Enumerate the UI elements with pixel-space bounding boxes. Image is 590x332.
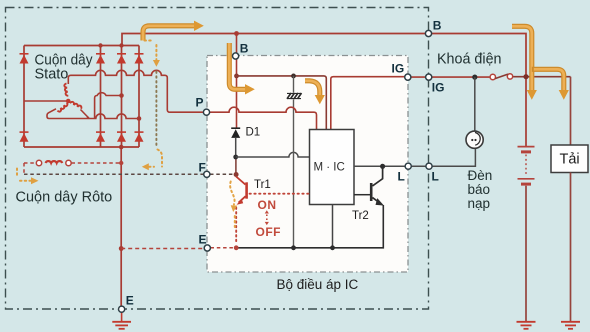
wire: IG pin of M-IC [331, 77, 405, 130]
label Tr2 [352, 210, 369, 222]
label node B inner [240, 42, 249, 56]
wire: rotor dashed left [24, 162, 36, 164]
diode D-top-neutral [20, 54, 29, 64]
bridge column 3 [138, 46, 140, 148]
svg-text:Bộ điều áp IC: Bộ điều áp IC [277, 277, 359, 292]
load box Tai [551, 145, 588, 173]
wire: load to ground [570, 173, 572, 322]
svg-text:L: L [432, 170, 439, 184]
junction resistor top [291, 74, 296, 79]
svg-text:báo: báo [468, 182, 491, 197]
node E inner [204, 245, 210, 251]
svg-text:ON: ON [258, 198, 277, 212]
wire: lamp feed [474, 77, 476, 131]
field current dotted from B bus [145, 41, 160, 67]
junction E rail Tr1 [234, 245, 239, 250]
transistor Tr1 [236, 177, 247, 205]
svg-text:B: B [433, 19, 442, 33]
rotor slip ring right [66, 160, 71, 165]
label OFF [256, 225, 282, 239]
ON OFF toggle arrow [265, 210, 269, 225]
svg-text:Tr1: Tr1 [254, 179, 271, 191]
wire: P line into regulator [210, 107, 317, 129]
junction bottom rail ground [119, 145, 124, 150]
label node F [199, 161, 206, 175]
label node L outer [432, 170, 439, 184]
stator coil phase U [64, 84, 68, 96]
junction B column IG line [234, 74, 239, 79]
label node IG outer [432, 81, 445, 95]
junction F [234, 172, 239, 177]
field current dotted mid segment [155, 72, 157, 147]
wire: E dashed link to regulator [121, 248, 204, 250]
label Den bao nap [468, 168, 493, 211]
junction phase W col2 [119, 93, 124, 98]
node P [203, 109, 209, 115]
field current dotted rotor exit [17, 169, 39, 185]
wire: E dashed to Tr1 [211, 247, 237, 249]
diode D1 [231, 128, 240, 138]
ignition switch line [408, 76, 571, 78]
svg-text:Đèn: Đèn [468, 168, 493, 183]
svg-text:Stato: Stato [35, 67, 69, 83]
label node P [196, 96, 204, 110]
wire: B bus from bridge to battery [122, 34, 526, 147]
rotor field coil [46, 161, 63, 163]
junction L Tr2 [380, 164, 385, 169]
diode D-bot-1 [96, 132, 105, 142]
ground wire from bridge to E [120, 147, 122, 306]
junction B bus [234, 31, 239, 36]
label Cuon day Stato [35, 53, 94, 83]
svg-text:L: L [398, 170, 405, 184]
rectifier bridge top rail [24, 45, 139, 47]
junction bridge rail col1 [98, 43, 102, 47]
wire: Tr2 base from M-IC [354, 194, 370, 196]
diode D-top-1 [96, 54, 105, 64]
junction bridge rail col2 [119, 43, 123, 47]
bridge column 2 [121, 46, 123, 148]
wire: Tr1 emitter dotted to E rail [235, 208, 237, 245]
wire: phase U to P terminal [68, 70, 204, 112]
current arrow into B terminal [229, 43, 255, 95]
wire: L output line [354, 148, 475, 166]
svg-text:P: P [196, 96, 204, 110]
wire: rotor left drop [23, 163, 25, 174]
node E outer [119, 306, 125, 312]
wire: F dashed line [24, 173, 204, 175]
battery [518, 147, 535, 185]
switch contact left [490, 74, 495, 79]
node F [204, 171, 210, 177]
junction battery tap [523, 74, 528, 79]
stator neutral wire [24, 100, 66, 102]
svg-text:OFF: OFF [256, 225, 282, 239]
alternator dash-dot frame [6, 8, 429, 310]
stator star point [66, 99, 71, 104]
diode D-top-3 [135, 54, 144, 64]
node B outer [425, 30, 431, 36]
svg-text:Tải: Tải [560, 152, 580, 168]
wire: load feed [570, 77, 572, 145]
wire: F dashed inside regulator [210, 173, 236, 175]
ground symbol load [561, 322, 580, 329]
svg-text:M · IC: M · IC [314, 162, 345, 174]
ground symbol E [112, 312, 131, 329]
label node E inner [199, 233, 207, 247]
junction phase V col3 [137, 116, 142, 121]
wire: phase V to bridge column 3 [47, 109, 139, 119]
rectifier bridge bottom rail [24, 146, 139, 148]
svg-text:D1: D1 [246, 127, 261, 139]
junction E rail M-IC [330, 245, 335, 250]
wire: resistor column [293, 76, 295, 248]
wire: phase W tail [81, 110, 89, 119]
switch blade [495, 74, 508, 79]
node L inner [405, 163, 411, 169]
wire: battery to ground [525, 186, 527, 322]
svg-text:Tr2: Tr2 [352, 210, 369, 222]
IC regulator box [207, 56, 408, 273]
wire: Tr1 base dotted to M-IC [250, 193, 310, 195]
node IG inner [405, 74, 411, 80]
junction rotor ground [119, 161, 123, 165]
label node E outer [126, 294, 134, 308]
junction D1 sense [233, 155, 238, 160]
wire: IG feed line in regulator [237, 76, 327, 130]
stator coil phase W [70, 100, 82, 110]
label node B outer [433, 19, 442, 33]
diode D-bot-neutral [20, 132, 29, 142]
svg-text:E: E [199, 233, 207, 247]
junction E rail resistor [291, 245, 296, 250]
diode D-bot-3 [135, 132, 144, 142]
svg-text:IG: IG [432, 81, 445, 95]
diode D-top-2 [117, 54, 126, 64]
label Khoa dien [437, 51, 502, 68]
current arrow to battery and load [512, 26, 569, 100]
diode D-bot-2 [117, 132, 126, 142]
node B inner [233, 53, 239, 59]
svg-text:B: B [240, 42, 249, 56]
label D1 [246, 127, 261, 139]
label node L inner [398, 170, 405, 184]
current arrow into M-IC [305, 81, 325, 105]
wire: E rail [236, 205, 383, 248]
svg-text:F: F [199, 161, 206, 175]
svg-text:E: E [126, 294, 134, 308]
bridge column 1 [100, 46, 102, 148]
wire: D1 to F junction [235, 138, 237, 175]
switch contact right [507, 74, 512, 79]
wire: B column inside regulator [236, 34, 238, 129]
transistor Tr2 [371, 166, 384, 205]
label node IG inner [392, 62, 405, 76]
ground symbol battery [517, 322, 536, 329]
field current dotted into rotor [142, 150, 162, 171]
op-amp block M-IC [310, 130, 355, 205]
node IG outer [426, 74, 432, 80]
wire: rotor dashed right to ground [72, 162, 122, 164]
svg-text:Cuộn dây Rôto: Cuộn dây Rôto [16, 190, 113, 206]
charge lamp [466, 131, 483, 148]
wire: phase W to bridge column 2 [87, 93, 122, 119]
wire: M-IC ground pin [332, 205, 334, 248]
stator coil phase V [56, 103, 69, 113]
bridge left column (neutral diodes) [23, 46, 25, 148]
svg-text:Khoá điện: Khoá điện [437, 51, 502, 68]
junction lamp tap [472, 75, 477, 80]
junction E line [119, 246, 124, 251]
current arrow bridge output [143, 21, 204, 41]
node L outer [426, 163, 432, 169]
label Bo dieu ap IC [277, 277, 359, 292]
label Cuon day Roto [16, 190, 113, 206]
label ON [258, 198, 277, 212]
resistor R (hatched) [287, 93, 302, 99]
field current dotted through Tr1 [230, 182, 237, 228]
svg-text:nạp: nạp [468, 196, 491, 211]
rotor slip ring left [36, 160, 41, 165]
wire: sense line to M-IC [236, 152, 310, 157]
svg-text:IG: IG [392, 62, 405, 76]
label Tr1 [254, 179, 271, 191]
